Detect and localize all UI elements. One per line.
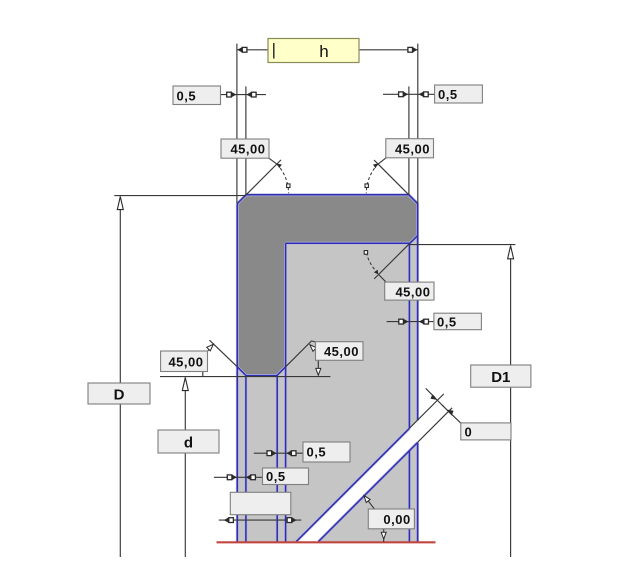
arc arrowheads (filled)	[277, 164, 453, 416]
0,5 #1 leader tails	[254, 452, 303, 454]
0,5 top-left arrows	[227, 92, 237, 97]
h arrows	[237, 47, 247, 52]
diagonal slot (white band)	[296, 420, 417, 541]
svg-text:0: 0	[465, 424, 473, 439]
bore right edge (split by slot)	[408, 244, 410, 542]
45,00 bottom-right down arrow	[316, 368, 321, 375]
D1 arrow	[508, 246, 514, 259]
label box: 0,5 top-left	[173, 86, 221, 105]
bore top edge + wall chamfer	[286, 236, 418, 244]
outer profile	[237, 195, 417, 542]
black dimension geometry	[114, 44, 515, 557]
45,00 top-left leader	[246, 160, 281, 195]
D1 extension line	[410, 244, 516, 246]
blue outline halos	[237, 195, 417, 542]
bottom face extension line	[160, 376, 330, 378]
label box: 0,5 top-right	[435, 85, 483, 103]
D1 dimension line	[510, 245, 512, 557]
arc top-right 45 dim	[366, 164, 378, 193]
svg-text:0,5: 0,5	[307, 445, 327, 460]
bore left edge	[285, 243, 287, 541]
0,5 right-mid arrows	[399, 319, 409, 324]
svg-text:45,00: 45,00	[324, 344, 359, 359]
0,5 #2 arrows	[227, 475, 237, 480]
svg-text:d: d	[184, 435, 193, 452]
0,5 right-mid leader tails	[387, 321, 434, 323]
svg-text:0,5: 0,5	[177, 88, 197, 103]
svg-text:45,00: 45,00	[168, 354, 203, 369]
label box: D1	[471, 365, 531, 387]
45,00 bottom-left open arrow	[207, 343, 215, 351]
chamfer projection lines	[246, 376, 277, 542]
label box: h	[268, 39, 359, 63]
label box: 45,00 bottom-left	[161, 351, 208, 372]
45,00 bottom-right leader	[286, 341, 312, 367]
label box: 0	[461, 423, 511, 440]
0,5 #1 arrows	[267, 451, 277, 456]
h extension right	[417, 44, 419, 204]
0,5 top-right leader tails	[383, 93, 435, 95]
label box: 0,5 right-mid	[434, 313, 482, 330]
label box: 0,5 #1	[303, 442, 350, 462]
0,5 #2 leader tails	[214, 476, 263, 478]
45,00 top-right leader	[374, 160, 409, 195]
D extension line	[114, 195, 246, 197]
svg-text:D1: D1	[491, 369, 510, 386]
label box: d	[158, 430, 219, 453]
svg-text:45,00: 45,00	[395, 141, 430, 156]
d dimension line	[184, 377, 186, 557]
0,00 arrow line to red base	[383, 529, 385, 542]
slot dim arrowheads	[431, 394, 438, 400]
45,00 bottom-left leader	[210, 340, 238, 367]
label box: D	[88, 383, 150, 404]
arc top-left 45 dim	[277, 164, 289, 193]
D dimension line	[119, 196, 121, 557]
svg-text:0,5: 0,5	[437, 314, 457, 329]
svg-text:0,5: 0,5	[438, 87, 458, 102]
slot edges	[296, 428, 417, 541]
part inner section fill (light gray)	[237, 236, 417, 542]
red base line	[217, 541, 436, 543]
label box: empty	[230, 492, 290, 514]
0,00 leader open arrow	[362, 494, 370, 502]
angular dim arcs	[277, 164, 378, 272]
0,00 leader	[366, 498, 374, 509]
chamfer extension right inner	[408, 86, 410, 194]
0,5 top-right arrows	[399, 92, 409, 97]
chamfer extension left inner	[245, 86, 247, 194]
45,00 right-mid leader	[374, 244, 409, 279]
label box: 45,00 top-left	[221, 139, 269, 158]
d arrow	[182, 378, 188, 391]
label box: 0,00	[368, 509, 414, 529]
h extension left	[236, 44, 238, 204]
D arrow	[117, 197, 123, 210]
arc right-mid 45 dim	[366, 253, 377, 273]
label box: 45,00 top-right	[386, 139, 434, 158]
slot width arrow lines	[426, 388, 435, 397]
label box: 45,00 bottom-right	[316, 342, 364, 361]
svg-text:45,00: 45,00	[395, 284, 430, 299]
empty box dim arrows	[224, 517, 234, 522]
arc end squares	[287, 184, 369, 254]
slot width ticks	[433, 396, 444, 407]
svg-text:0,5: 0,5	[266, 469, 286, 484]
label box: 0,5 #2	[263, 468, 309, 485]
0,5 top-left leader tails	[221, 94, 266, 96]
slot width extension lines	[410, 394, 444, 428]
h dimension line	[237, 49, 418, 51]
empty box dimension line	[219, 519, 301, 521]
45,00 bottom-right open arrow	[308, 343, 316, 351]
svg-text:D: D	[114, 387, 125, 404]
label box: 45,00 right-mid	[385, 282, 434, 300]
part cut material fill (dark gray L-shape)	[237, 195, 417, 376]
svg-text:h: h	[319, 42, 328, 61]
column bottom chamfered face	[237, 367, 285, 376]
svg-text:45,00: 45,00	[230, 142, 265, 157]
svg-text:0,00: 0,00	[383, 512, 410, 527]
0,00 down arrow at red line	[381, 532, 386, 539]
blue outline cores	[237, 195, 417, 542]
